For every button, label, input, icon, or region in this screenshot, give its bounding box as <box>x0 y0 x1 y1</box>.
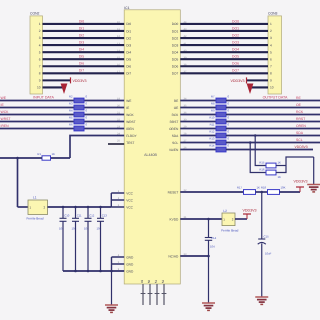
svg-text:0: 0 <box>228 102 230 106</box>
svg-text:RESET: RESET <box>168 190 179 194</box>
svg-text:7: 7 <box>39 64 41 68</box>
resistor R1 <box>42 156 51 160</box>
svg-text:WE: WE <box>126 99 131 103</box>
wire C11 bottom lead <box>75 221 77 271</box>
svg-text:OUTPUT DATA: OUTPUT DATA <box>263 96 288 100</box>
svg-text:C11: C11 <box>77 214 82 218</box>
svg-text:R4: R4 <box>69 109 73 113</box>
svg-text:0: 0 <box>228 130 230 134</box>
wire C13 bottom lead <box>100 221 102 271</box>
wire VA/EN row to VDD3V3 <box>226 149 313 151</box>
wire VCC rail into U1 VCC pins <box>111 193 124 207</box>
svg-text:C13: C13 <box>102 214 108 218</box>
svg-text:VCC: VCC <box>126 191 133 195</box>
svg-text:R12: R12 <box>209 130 215 134</box>
junction SCL / R16 branch <box>249 141 252 144</box>
wire C14 top lead <box>208 219 210 238</box>
U1 bottom pad stub 3 <box>156 284 158 305</box>
svg-text:51: 51 <box>154 280 158 284</box>
wire DI0 CON2.1 to U1 <box>43 23 125 25</box>
svg-text:DO6: DO6 <box>232 62 239 66</box>
svg-text:R5: R5 <box>69 116 73 120</box>
svg-text:9: 9 <box>39 79 41 83</box>
svg-text:C15: C15 <box>264 235 270 239</box>
svg-text:DI4: DI4 <box>79 48 84 52</box>
junction GND rail x=100.5 <box>99 270 102 273</box>
wire DI3 CON2.4 to U1 <box>43 44 125 46</box>
svg-text:10K: 10K <box>281 186 286 190</box>
wire R18 to VDD3V3 node <box>280 191 301 193</box>
svg-text:VCC: VCC <box>126 205 133 209</box>
resistor R7 (series) <box>216 98 226 103</box>
svg-text:IE: IE <box>1 103 5 107</box>
svg-text:0: 0 <box>228 109 230 113</box>
svg-text:0: 0 <box>228 123 230 127</box>
svg-text:DO6: DO6 <box>172 65 179 69</box>
wire DI1 CON2.2 to U1 <box>43 30 125 32</box>
svg-text:VDD3V3: VDD3V3 <box>295 145 308 149</box>
svg-text:9: 9 <box>270 79 272 83</box>
resistor R10 (series) <box>216 119 226 124</box>
resistor R9 (series) <box>216 112 226 117</box>
svg-text:DO0: DO0 <box>172 22 179 26</box>
wire C15 bottom lead <box>261 243 263 297</box>
resistor R15 (SDA pull) <box>266 163 276 168</box>
wire IREN left edge to R6 <box>0 128 74 130</box>
wire ground drop from GND rail <box>111 271 113 305</box>
resistor R18 <box>268 190 280 195</box>
svg-text:R17: R17 <box>237 186 243 190</box>
svg-text:DO7: DO7 <box>172 72 179 76</box>
svg-text:WE: WE <box>1 96 7 100</box>
junction GND rail / ground drop <box>110 270 113 273</box>
svg-text:1K: 1K <box>257 186 261 190</box>
svg-text:WCK: WCK <box>1 110 10 114</box>
wire C14 bottom lead <box>208 240 210 256</box>
junction VCC rail / C12 top <box>87 206 90 209</box>
svg-text:1: 1 <box>270 22 272 26</box>
wire DI7 CON2.8 to U1 <box>43 72 125 74</box>
svg-text:3: 3 <box>270 36 272 40</box>
svg-text:DI3: DI3 <box>126 43 131 47</box>
wire OE to right edge <box>226 107 320 109</box>
wire DO6 U1 to CON3.7 <box>180 65 268 67</box>
wire U1 ctrl to R13 <box>180 142 216 144</box>
wire R1 row left segment to edge <box>0 157 42 159</box>
svg-text:R18: R18 <box>261 186 267 190</box>
U1 bottom pad stub 4 tick <box>162 293 167 295</box>
wire C11 top lead <box>75 207 77 218</box>
capacitor C14 <box>205 238 212 241</box>
svg-text:0: 0 <box>86 102 88 106</box>
IC U1 AL440B body <box>124 10 180 284</box>
wire U1 ctrl to R12 <box>180 135 216 137</box>
power port VDD3V3 on RESET <box>294 180 308 193</box>
wire U1 NC/AD to ground drop <box>180 255 208 257</box>
connector CON2 body <box>30 16 43 94</box>
svg-text:0: 0 <box>228 144 230 148</box>
svg-text:WCK: WCK <box>126 113 134 117</box>
svg-text:RRST: RRST <box>296 117 305 121</box>
resistor R5 (WRST series) <box>74 119 84 124</box>
svg-text:1: 1 <box>39 22 41 26</box>
svg-text:C12: C12 <box>89 214 95 218</box>
svg-text:DO7: DO7 <box>232 69 239 73</box>
svg-text:DO2: DO2 <box>232 33 239 37</box>
svg-text:R1: R1 <box>37 152 41 156</box>
svg-text:RCK: RCK <box>172 113 180 117</box>
wire R17 to R18 <box>256 191 268 193</box>
svg-text:SDA: SDA <box>172 134 179 138</box>
junction GND rail x=88 <box>87 270 90 273</box>
ground arrow at CON3 pin10 <box>247 84 254 95</box>
wire C15 top lead <box>261 192 263 239</box>
svg-text:IREN: IREN <box>126 127 134 131</box>
wire DO0 U1 to CON3.1 <box>180 23 268 25</box>
svg-text:CON2: CON2 <box>30 12 40 16</box>
svg-text:104: 104 <box>210 244 215 248</box>
svg-text:10uF: 10uF <box>265 252 272 256</box>
wire RCK to right edge <box>226 114 320 116</box>
ground symbol at right rail <box>307 185 320 192</box>
svg-text:R16: R16 <box>259 167 265 171</box>
ground arrow at CON2 pin10 <box>61 84 68 95</box>
svg-text:5: 5 <box>39 50 41 54</box>
U1 bottom pad stub 2 <box>149 284 151 305</box>
svg-text:DO5: DO5 <box>172 58 179 62</box>
resistor R4 (WCK series) <box>74 112 84 117</box>
svg-text:DI0: DI0 <box>79 19 84 23</box>
wire OREN to right edge <box>226 128 320 130</box>
junction R1 row / L1 branch <box>16 157 19 160</box>
wire RE to right edge <box>226 100 320 102</box>
svg-text:DO3: DO3 <box>172 43 179 47</box>
wire C10 bottom lead <box>62 221 64 271</box>
junction RESET / C15 branch <box>260 191 263 194</box>
svg-text:7: 7 <box>270 64 272 68</box>
svg-text:C10: C10 <box>64 214 70 218</box>
svg-text:DI0: DI0 <box>126 22 131 26</box>
U1 bottom pad stub 1 <box>142 284 144 305</box>
svg-text:8: 8 <box>270 72 272 76</box>
ground symbol below NC/AD <box>202 303 215 310</box>
svg-text:DO2: DO2 <box>172 36 179 40</box>
svg-text:SCL: SCL <box>296 138 303 142</box>
wire U1 KVDD to L2 <box>180 218 222 220</box>
wire DI6 CON2.7 to U1 <box>43 65 125 67</box>
svg-text:0: 0 <box>86 123 88 127</box>
wire U1 ctrl to R7 <box>180 100 216 102</box>
svg-text:0: 0 <box>228 137 230 141</box>
svg-text:25: 25 <box>117 140 120 143</box>
wire SDA down to R15 <box>255 136 266 166</box>
resistor R8 (series) <box>216 105 226 110</box>
resistor R13 (series) <box>216 140 226 145</box>
svg-text:R10: R10 <box>209 116 215 120</box>
svg-text:0: 0 <box>86 95 88 99</box>
svg-text:6: 6 <box>39 57 41 61</box>
svg-text:DO3: DO3 <box>232 40 239 44</box>
wire DO4 U1 to CON3.5 <box>180 51 268 53</box>
wire U1 ctrl to R9 <box>180 114 216 116</box>
capacitor C10 <box>60 218 67 221</box>
resistor R16 (SCL pull) <box>266 170 276 175</box>
svg-text:8: 8 <box>39 72 41 76</box>
svg-text:IREN: IREN <box>1 124 10 128</box>
wire DO1 U1 to CON3.2 <box>180 30 268 32</box>
svg-text:RE: RE <box>174 99 178 103</box>
wire DO3 U1 to CON3.4 <box>180 44 268 46</box>
svg-text:DO1: DO1 <box>172 29 179 33</box>
resistor R6 (IREN series) <box>74 126 84 131</box>
svg-text:DI1: DI1 <box>79 26 84 30</box>
capacitor C13 <box>97 218 104 221</box>
svg-text:RE: RE <box>296 96 301 100</box>
wire SCL down to R16 <box>250 143 266 173</box>
wire to L1 pin1 <box>18 206 29 208</box>
wire rail down to ground <box>313 157 315 185</box>
U1 bottom pad stub 4 <box>163 284 165 305</box>
svg-text:R11: R11 <box>210 123 215 127</box>
svg-text:R14: R14 <box>209 144 215 148</box>
wire R1 row right segment <box>51 157 71 159</box>
wire C12 top lead <box>87 207 89 218</box>
inductor L1 ferrite bead body <box>28 200 48 215</box>
svg-text:R3: R3 <box>69 102 73 106</box>
svg-text:DO0: DO0 <box>232 19 239 23</box>
wire DI5 CON2.6 to U1 <box>43 58 125 60</box>
svg-text:DO4: DO4 <box>172 50 179 54</box>
wire WCK left edge to R4 <box>0 114 74 116</box>
svg-text:6: 6 <box>270 57 272 61</box>
svg-text:WRST: WRST <box>1 117 11 121</box>
power port VDD3V3 at CON3 pin9 <box>231 77 247 83</box>
svg-text:50: 50 <box>147 280 151 284</box>
svg-text:OE: OE <box>296 103 302 107</box>
svg-text:VA/EN: VA/EN <box>169 148 179 152</box>
svg-text:R15: R15 <box>259 160 265 164</box>
wire U1 ctrl to R10 <box>180 121 216 123</box>
svg-text:L2: L2 <box>223 209 227 213</box>
svg-text:2: 2 <box>270 29 272 33</box>
svg-text:FLRDY: FLRDY <box>126 134 137 138</box>
capacitor C15 (polarized) <box>258 239 266 244</box>
wire DO7 U1 to CON3.8 <box>180 72 268 74</box>
svg-text:GND: GND <box>126 255 134 259</box>
svg-text:IC1: IC1 <box>124 6 129 10</box>
wire WE left edge to R2 <box>0 100 74 102</box>
wire C13 top lead <box>100 207 102 218</box>
junction GND rail x=75.5 <box>74 270 77 273</box>
wire R4 to U1 WCK <box>84 114 124 116</box>
wire DI2 CON2.3 to U1 <box>43 37 125 39</box>
wire U1 RESET to R17 <box>180 191 243 193</box>
svg-text:R8: R8 <box>211 102 215 106</box>
svg-text:DI6: DI6 <box>126 65 131 69</box>
svg-text:49: 49 <box>140 280 144 284</box>
svg-text:52: 52 <box>161 280 165 284</box>
wire R5 to U1 WRST <box>84 121 124 123</box>
svg-text:10: 10 <box>37 86 41 90</box>
ground symbol below U1 GND pins <box>105 305 118 312</box>
wire CON3 pin10 to GND arrow <box>250 86 268 88</box>
svg-text:10: 10 <box>270 86 274 90</box>
wire SDA to right edge <box>226 135 320 137</box>
svg-text:DI2: DI2 <box>79 33 84 37</box>
svg-text:KVDD: KVDD <box>169 217 179 221</box>
svg-text:Ferrite Bead: Ferrite Bead <box>221 229 238 233</box>
svg-text:SCL: SCL <box>172 141 178 145</box>
U1 bottom pad stub 3 tick <box>155 293 160 295</box>
svg-text:VCC: VCC <box>126 198 133 202</box>
svg-text:R6: R6 <box>69 123 73 127</box>
wire U1 ctrl to R8 <box>180 107 216 109</box>
svg-text:VDD3V3: VDD3V3 <box>243 208 257 212</box>
svg-text:1K: 1K <box>278 160 282 164</box>
junction VCC rail / C10 top <box>62 206 65 209</box>
wire caps bottom GND rail <box>63 270 124 272</box>
svg-text:OREN: OREN <box>296 124 306 128</box>
svg-text:DI2: DI2 <box>126 36 131 40</box>
junction KVDD / C14 branch <box>207 218 210 221</box>
svg-text:VDD3V3: VDD3V3 <box>73 79 87 83</box>
wire R15 right to common <box>276 165 286 167</box>
wire C10 top lead <box>62 207 64 218</box>
wire IE left edge to R3 <box>0 107 74 109</box>
svg-text:GND: GND <box>126 262 134 266</box>
svg-text:0: 0 <box>86 116 88 120</box>
wire WRST left edge to R5 <box>0 121 74 123</box>
svg-text:R7: R7 <box>211 95 215 99</box>
resistor R12 (series) <box>216 133 226 138</box>
svg-text:TEST: TEST <box>126 141 134 145</box>
wire C12 bottom lead <box>87 221 89 271</box>
svg-text:4: 4 <box>39 43 41 47</box>
svg-text:CON3: CON3 <box>268 12 278 16</box>
wire DO2 U1 to CON3.3 <box>180 37 268 39</box>
svg-text:DO5: DO5 <box>232 55 239 59</box>
svg-text:AL440B: AL440B <box>144 153 157 157</box>
svg-text:DI4: DI4 <box>126 50 131 54</box>
U1 bottom pad stub 1 tick <box>141 293 146 295</box>
svg-text:4: 4 <box>270 43 272 47</box>
svg-text:SDA: SDA <box>296 131 304 135</box>
junction SDA / R15 branch <box>254 134 257 137</box>
svg-text:DI5: DI5 <box>79 55 84 59</box>
wire R15 R16 common to rail <box>276 157 314 173</box>
connector CON3 body <box>268 16 282 94</box>
svg-text:L1: L1 <box>33 196 37 200</box>
svg-text:WRST: WRST <box>126 120 135 124</box>
capacitor C12 <box>85 218 92 221</box>
wire R2 to U1 WE <box>84 100 124 102</box>
wire R6 to U1 IREN <box>84 128 124 130</box>
wire FLRDY from U1 down to R1 row <box>70 136 124 159</box>
wire junction down to L1 pin1 <box>17 158 19 207</box>
svg-text:2: 2 <box>39 29 41 33</box>
resistor R2 (WE series) <box>74 98 84 103</box>
U1 bottom pad stub 2 tick <box>148 293 153 295</box>
junction VCC rail / C13 top <box>99 206 102 209</box>
svg-text:1K: 1K <box>52 152 56 156</box>
svg-text:0: 0 <box>228 95 230 99</box>
wire RRST to right edge <box>226 121 320 123</box>
svg-text:RCK: RCK <box>296 110 304 114</box>
ground symbol below C15 <box>255 297 268 304</box>
svg-text:0: 0 <box>86 109 88 113</box>
wire CON3 pin9 to VDD3V3 <box>247 79 268 81</box>
svg-text:DI6: DI6 <box>79 62 84 66</box>
wire NC/AD drop to ground <box>208 256 210 303</box>
resistor R17 <box>244 190 256 195</box>
svg-text:IE: IE <box>126 106 129 110</box>
wire CON2 pin10 to GND arrow <box>43 86 65 88</box>
svg-text:RRST: RRST <box>170 120 179 124</box>
power port VDD3V3 after L2 <box>243 208 257 219</box>
svg-text:5: 5 <box>270 50 272 54</box>
svg-text:0: 0 <box>228 116 230 120</box>
resistor R11 (series) <box>216 126 226 131</box>
svg-text:DI1: DI1 <box>126 29 131 33</box>
wire U1 ctrl to R11 <box>180 128 216 130</box>
resistor R3 (IE series) <box>74 105 84 110</box>
inductor L2 ferrite bead body <box>222 213 235 226</box>
capacitor C11 <box>72 218 79 221</box>
svg-text:INPUT DATA: INPUT DATA <box>33 96 54 100</box>
svg-text:DI7: DI7 <box>79 69 84 73</box>
resistor R14 (series) <box>216 147 226 152</box>
svg-text:DI7: DI7 <box>126 72 131 76</box>
svg-text:3: 3 <box>39 36 41 40</box>
wire TEST no-connect stub <box>108 143 124 145</box>
svg-text:OE: OE <box>174 106 179 110</box>
svg-text:VDD3V3: VDD3V3 <box>294 180 308 184</box>
wire L1 pin2 to VCC rail <box>48 206 112 208</box>
wire CON2 pin9 to VDD3V3 <box>43 79 71 81</box>
power port VDD3V3 at CON2 pin9 <box>71 77 87 83</box>
wire DO5 U1 to CON3.6 <box>180 58 268 60</box>
svg-text:GND: GND <box>126 269 134 273</box>
junction VCC rail / C11 top <box>74 206 77 209</box>
svg-text:DI5: DI5 <box>126 58 131 62</box>
svg-text:NC/AD: NC/AD <box>168 254 179 258</box>
svg-text:1K: 1K <box>278 175 282 179</box>
svg-text:R9: R9 <box>211 109 215 113</box>
svg-text:Ferrite Bead: Ferrite Bead <box>27 217 44 221</box>
svg-text:DO1: DO1 <box>232 26 239 30</box>
svg-text:OREN: OREN <box>169 127 179 131</box>
junction NC/AD / ground drop <box>207 255 210 258</box>
wire SCL to right edge <box>226 142 320 144</box>
wire GND bus into U1 GND pins <box>112 257 125 271</box>
svg-text:DI3: DI3 <box>79 40 84 44</box>
svg-text:R13: R13 <box>209 137 215 141</box>
svg-text:C14: C14 <box>211 236 217 240</box>
wire U1 ctrl to R14 <box>180 149 216 151</box>
wire R3 to U1 IE <box>84 107 124 109</box>
svg-text:DO4: DO4 <box>232 48 239 52</box>
wire L2 pin2 to VDD3V3 <box>235 218 247 220</box>
svg-text:VDD3V3: VDD3V3 <box>231 79 245 83</box>
svg-text:R2: R2 <box>69 95 73 99</box>
wire DI4 CON2.5 to U1 <box>43 51 125 53</box>
